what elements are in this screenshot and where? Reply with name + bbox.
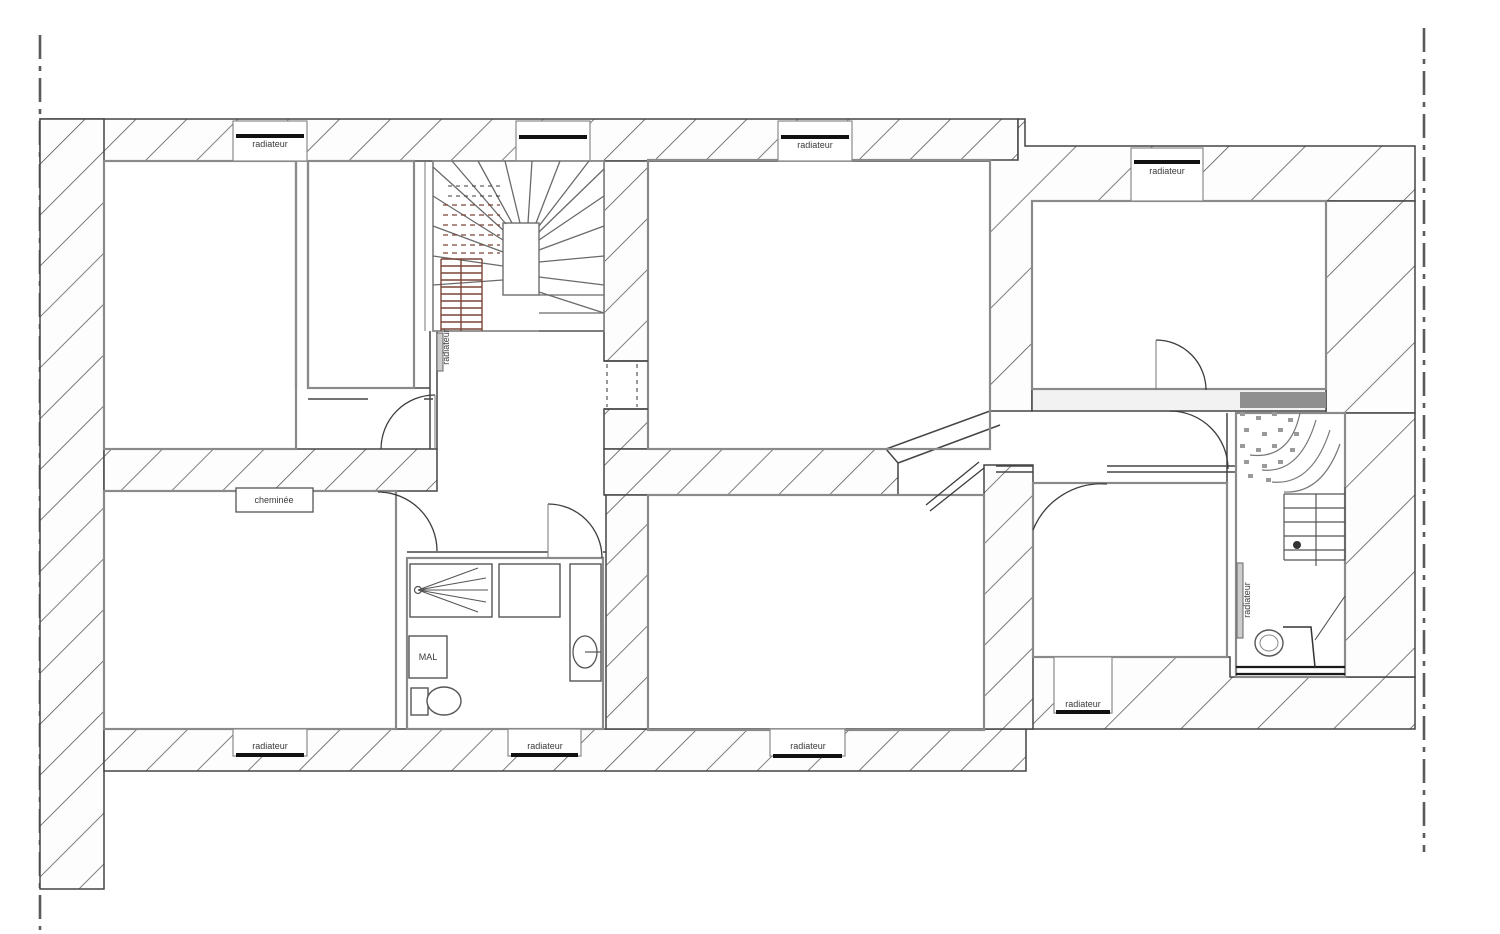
cheminee box	[236, 488, 313, 512]
door bureau12 arc	[1033, 484, 1107, 530]
room outline chambre13	[1032, 201, 1326, 389]
partition chambre12 / salle d'eau	[396, 558, 407, 729]
toilet wc11	[1255, 630, 1283, 656]
wall right party lower	[1345, 413, 1415, 677]
vanity unit salle d'eau	[570, 564, 601, 681]
svg-text:cheminée: cheminée	[254, 495, 293, 505]
main stair newel box	[503, 223, 539, 295]
door palier12 arc	[1170, 411, 1228, 469]
radiator salon top	[781, 135, 849, 139]
room outline palier12/wc	[1236, 413, 1345, 677]
shower spray fan	[418, 568, 488, 612]
opening dashed between palier and salon	[604, 361, 648, 409]
window notch salle d'eau bottom	[508, 729, 581, 756]
svg-text:radiateur: radiateur	[1149, 166, 1185, 176]
radiator chambre13 top	[1134, 160, 1200, 164]
radiator palier11 west wall	[437, 333, 443, 371]
wall stair east / salon west upper	[604, 161, 648, 361]
door salle d'eau arc	[548, 504, 602, 558]
main stair lower treads	[539, 295, 604, 331]
room outline salon	[648, 160, 990, 449]
door bureau11 leaf	[926, 462, 984, 511]
door chambre13 arc	[1156, 340, 1206, 390]
radiator palier12 west wall	[1237, 563, 1243, 638]
door chambre11 arc	[381, 395, 435, 449]
radiator stair top	[519, 135, 587, 139]
wall left exterior	[40, 119, 104, 889]
wall salle d'eau east / bureau11 west	[606, 495, 648, 729]
stair 2 straight treads	[1284, 494, 1345, 560]
window notch bureau12 bottom	[1054, 657, 1112, 713]
room outline salle d'eau	[407, 558, 603, 729]
svg-text:radiateur: radiateur	[790, 741, 826, 751]
wall bottom band main	[104, 729, 1026, 771]
svg-text:radiateur: radiateur	[527, 741, 563, 751]
room outline chambre 11	[104, 161, 296, 449]
svg-text:radiateur: radiateur	[441, 329, 451, 365]
partition chambre11 / dressing	[296, 161, 308, 388]
corridor funnel diagonal walls	[886, 411, 990, 449]
window notch chambre11 top	[233, 121, 307, 161]
palier12 dotted floor texture	[1240, 412, 1299, 482]
room outline chambre12	[104, 491, 396, 729]
wall right party upper	[1326, 201, 1415, 413]
main stair straight flight brown	[441, 259, 482, 331]
partition palier / salle d'eau top	[407, 552, 606, 558]
partition bureau12 / palier12	[1227, 413, 1236, 677]
wall chambre11 bottom / chambre12 top	[104, 449, 437, 491]
window notch bureau11 bottom	[770, 729, 845, 756]
partition dressing bottom	[308, 388, 433, 399]
partition degt south / bureau12 top	[996, 466, 1236, 472]
window notch chambre13 top	[1131, 148, 1203, 201]
wall bottom band right section	[1026, 657, 1415, 729]
wall top band left section	[40, 119, 1018, 161]
main stair winder treads fan	[433, 161, 604, 313]
wc11 door dash	[1315, 596, 1345, 640]
wc11 corner diagonal	[1283, 627, 1315, 667]
wall top band right section with step	[990, 119, 1415, 411]
wall stair east / salon west lower	[604, 409, 648, 449]
wall bureau11 east / bureau12 west	[984, 465, 1033, 729]
shower tray	[410, 564, 492, 617]
radiator chambre11 top	[236, 134, 304, 138]
wall salon bottom / bureau11 top	[604, 449, 898, 495]
svg-text:radiateur: radiateur	[797, 140, 833, 150]
toilet salle d'eau	[411, 688, 428, 715]
bathroom counter	[499, 564, 560, 617]
room outline bureau12	[1033, 483, 1227, 657]
main stair outline	[433, 161, 604, 331]
svg-text:radiateur: radiateur	[252, 741, 288, 751]
window notch chambre12 bottom	[233, 729, 307, 756]
partition palier west	[430, 331, 437, 449]
window notch stair top	[516, 121, 590, 161]
property line right	[1423, 28, 1426, 852]
partition dressing east / stair west	[414, 161, 433, 331]
main stair dashed headroom marks	[443, 205, 500, 253]
room outline bureau11	[648, 495, 984, 730]
svg-text:MAL: MAL	[419, 652, 438, 662]
door chambre12 arc	[378, 492, 437, 551]
svg-text:radiateur: radiateur	[1065, 699, 1101, 709]
svg-text:radiateur: radiateur	[252, 139, 288, 149]
window notch salon top	[778, 121, 852, 161]
property line left	[39, 35, 42, 930]
wall chambre13 bottom band	[1032, 389, 1326, 411]
wc11 bottom double line	[1236, 667, 1345, 674]
washing machine MAL	[409, 636, 447, 678]
room outline dressing	[308, 161, 414, 388]
svg-text:radiateur: radiateur	[1242, 582, 1252, 618]
